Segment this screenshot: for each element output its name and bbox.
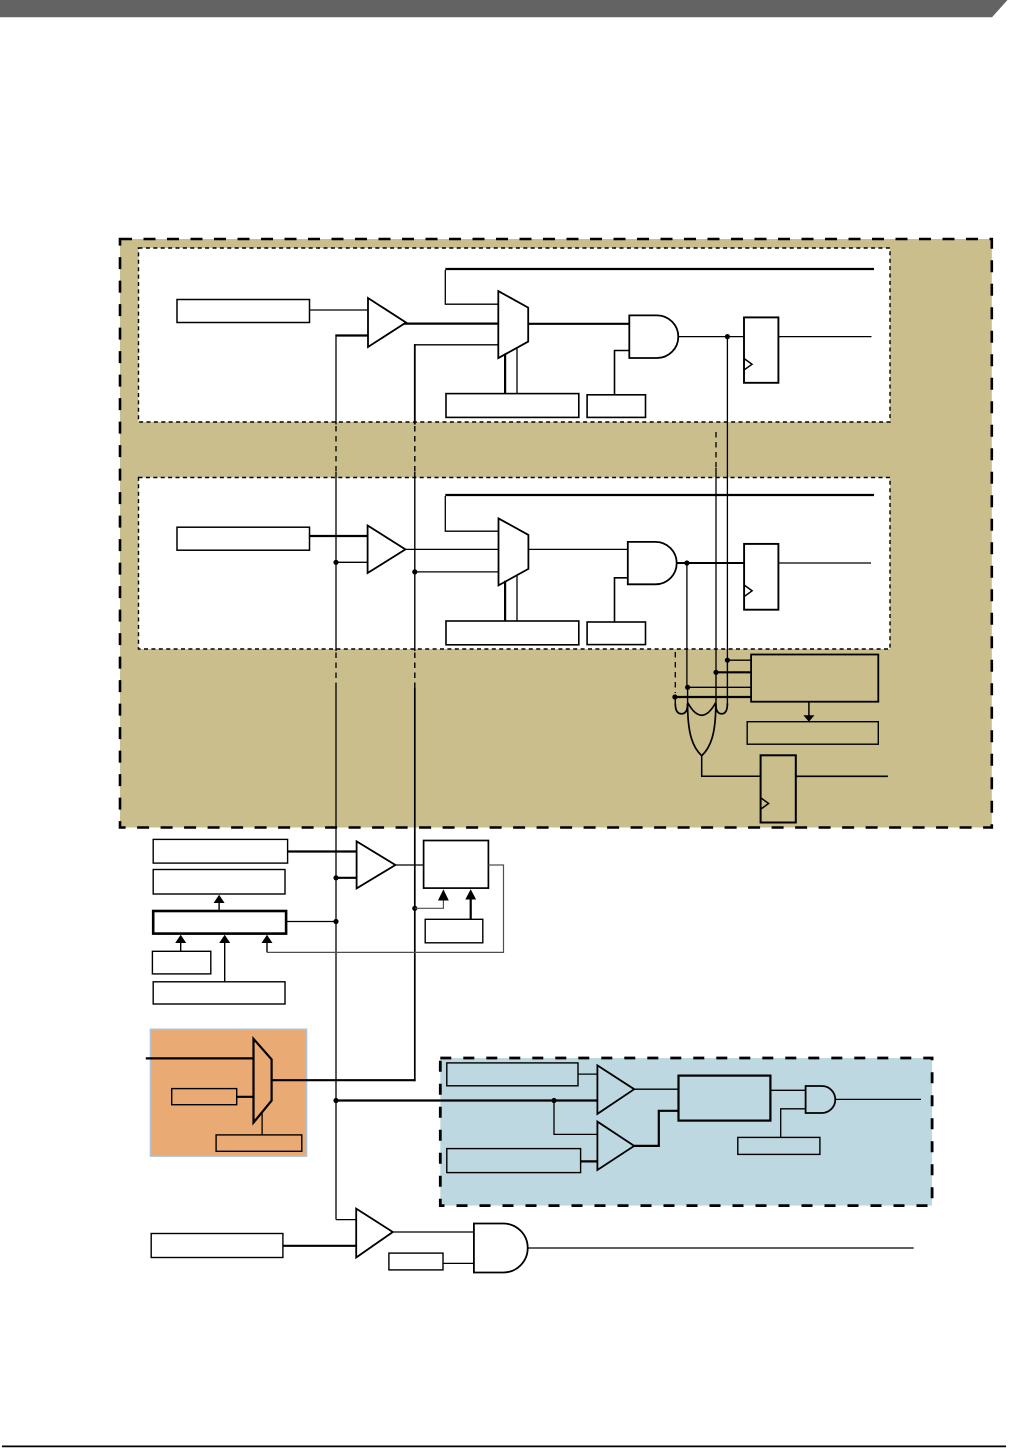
- wire OR input stub 4: [726, 660, 728, 705]
- AND gate B: [628, 542, 677, 584]
- wire comparator 1 output: [634, 1088, 678, 1090]
- wire bus riser 2 dashed below unit B: [414, 653, 416, 689]
- buffer amp B: [368, 526, 406, 574]
- arrow dead-time register to counter box: [808, 702, 810, 716]
- wire bus riser 2 lower solid run to mux output corner: [414, 688, 416, 1081]
- wire riser2 junction to mux B: [415, 571, 499, 573]
- wire riser1 elbow into buffer D: [336, 1219, 356, 1221]
- node AND B output junction: [684, 560, 689, 565]
- wire clock mux select stub: [261, 1113, 263, 1135]
- wire bus riser 1 top horizontal into buffer A: [335, 334, 368, 336]
- waveform generator B box: [446, 621, 579, 645]
- arrow input 3 into status register: [266, 943, 268, 953]
- wire branch to comparator 2: [554, 1101, 597, 1135]
- comparator 1: [597, 1065, 634, 1114]
- wire clock select to buffer C: [288, 850, 357, 852]
- control register B small box: [587, 622, 645, 645]
- node riser1 junction to edge detector: [333, 1098, 338, 1103]
- node branch junction in blue block: [551, 1098, 556, 1103]
- wire riser1 junction to buffer B: [336, 561, 368, 563]
- wire bus riser 2 solid through unit B: [414, 472, 416, 651]
- AND gate C: [806, 1086, 836, 1113]
- clock select register box: [153, 839, 287, 863]
- wire bus riser 1 (vertical, unit A to bottom): [335, 335, 337, 425]
- clock select bits box: [216, 1135, 302, 1151]
- node riser2 junction in unit B: [412, 569, 417, 574]
- wire riser 2 horizontal into mux A: [415, 344, 499, 346]
- edge detector block (blue dashed box): [440, 1058, 932, 1206]
- wire buffer A output to mux A: [404, 323, 499, 325]
- wire junction B drop to OR input: [686, 563, 688, 687]
- register capture box: [447, 1063, 578, 1086]
- bottom value box: [447, 1149, 581, 1173]
- wire bus riser 1 dashed segment between units: [335, 426, 337, 472]
- wire buffer C output to control block: [395, 864, 423, 866]
- wire AND A output: [678, 336, 744, 338]
- wire bus riser 1 dashed segment below unit B: [335, 653, 337, 689]
- flip-flop A: [744, 317, 778, 382]
- wire control logic feedback loop: [267, 865, 504, 952]
- wire riser1 junction into blue block: [336, 1099, 597, 1101]
- wire clock mux output to riser2: [272, 1079, 416, 1081]
- wire tap 4 horizontal thick: [675, 696, 751, 698]
- node tap 4 to dead-time register: [672, 694, 677, 699]
- wire mask bit to AND D: [443, 1262, 474, 1264]
- wire OR input stub 3: [715, 672, 717, 710]
- wire enable bits to AND C: [781, 1109, 806, 1138]
- wire mux A select thin vertical: [516, 348, 518, 394]
- waveform generator A box: [446, 394, 579, 418]
- wire fourth descender dashed start: [674, 652, 676, 693]
- node tap 1 to dead-time register: [725, 658, 730, 663]
- wire flip-flop A output: [778, 336, 871, 338]
- arrow prescaler to control logic: [470, 899, 472, 919]
- flip-flop B clock mark: [744, 585, 752, 597]
- flip-flop A clock mark: [744, 359, 752, 371]
- wire OCR1A to buffer A: [310, 309, 369, 311]
- wire logic box to AND C: [770, 1089, 805, 1091]
- footer rule: [2, 1445, 1006, 1447]
- wire control B to AND B: [615, 578, 628, 622]
- arrow input 2 into status register: [224, 943, 226, 982]
- wire riser1 junction into blue block overlay: [440, 1099, 597, 1101]
- OR gate body: [688, 704, 716, 756]
- wire feedback B vertical drop: [445, 496, 498, 531]
- wire mux B select thin vertical: [516, 575, 518, 621]
- wire third descender solid run: [715, 468, 717, 672]
- node riser1 junction in unit B: [333, 560, 338, 565]
- wire bus riser 2 dashed between units: [414, 426, 416, 472]
- synchronizer box: [172, 1089, 237, 1105]
- wire tap 2 horizontal thick: [716, 671, 751, 673]
- AND gate A: [629, 315, 678, 358]
- node riser2 junction at control logic: [412, 906, 417, 911]
- wire bottom value box to comparator 2: [581, 1160, 598, 1162]
- node AND A output junction: [725, 334, 730, 339]
- wire junction A drop to OR input: [726, 337, 728, 661]
- wire riser2 junction arrow into control logic: [415, 900, 444, 908]
- wire bus riser 1 solid through unit B: [335, 472, 337, 651]
- wire feedback A top horizontal: [445, 268, 874, 270]
- wire tap 3 horizontal: [687, 686, 751, 688]
- buffer amp A: [368, 298, 406, 347]
- clock mux: [254, 1039, 272, 1123]
- interrupt mask box: [153, 982, 285, 1004]
- wire OR output to flip-flop C: [702, 756, 761, 777]
- wire interrupt register to buffer D: [283, 1245, 356, 1247]
- wire bus riser 2 vertical in unit A: [414, 344, 416, 425]
- wire flip-flop B output: [778, 562, 871, 564]
- mux B: [499, 518, 529, 585]
- buffer amp C: [357, 841, 396, 888]
- wire riser1 junction to buffer C: [336, 877, 357, 879]
- arrow status to mode register: [218, 903, 220, 912]
- wire mux B output to AND B: [528, 548, 627, 550]
- mux A: [498, 291, 528, 358]
- clock source select block (orange box): [151, 1029, 307, 1156]
- node tap 3 to dead-time register: [685, 685, 690, 690]
- wire tap 1 horizontal: [727, 659, 751, 661]
- control logic box: [424, 841, 489, 889]
- mask bit box: [389, 1253, 443, 1270]
- wire mux A output to AND A: [528, 323, 629, 325]
- OR gate cup left: [675, 704, 687, 714]
- node riser1 junction at buffer C: [333, 875, 338, 880]
- wire status register to riser1: [286, 921, 336, 923]
- wire mux A select thick vertical: [504, 354, 506, 394]
- wire comparator 2 output up to logic box: [633, 1111, 679, 1146]
- mode register box: [153, 870, 285, 895]
- dead-time counter box: [747, 722, 878, 745]
- status register box (thick): [153, 911, 286, 934]
- interrupt register box: [151, 1234, 283, 1258]
- dead-time register box: [751, 655, 878, 702]
- wire OR input stub 1: [674, 697, 676, 706]
- wire flip-flop C output: [796, 775, 888, 777]
- OR gate input arc: [688, 703, 716, 716]
- wire control A to AND A: [615, 351, 630, 395]
- flip-flop C clock mark: [761, 798, 769, 810]
- node riser1 junction at status register: [333, 919, 338, 924]
- enable bits box: [738, 1137, 820, 1154]
- compare unit A inner box: [139, 248, 891, 422]
- header bar: [0, 0, 1008, 17]
- buffer amp D: [356, 1209, 393, 1258]
- AND gate D: [474, 1224, 528, 1273]
- control register A small box: [587, 395, 645, 418]
- flip-flop B: [744, 544, 778, 610]
- wire feedback A vertical drop: [445, 270, 498, 304]
- arrow input 1 into status register: [180, 943, 182, 952]
- wire synchronizer to clock mux: [237, 1096, 254, 1098]
- node tap 2 to dead-time register: [713, 670, 718, 675]
- dead-time generator outer block (khaki dashed box): [120, 239, 992, 828]
- comparator 2: [597, 1122, 634, 1170]
- compare unit B inner box: [139, 478, 891, 650]
- noise canceler logic box: [679, 1076, 771, 1121]
- wire buffer D output to AND D: [393, 1231, 474, 1233]
- wire OR input stub 2: [687, 687, 689, 710]
- wire OCR1B to buffer B: [310, 535, 368, 537]
- register OCR1A box: [177, 300, 310, 323]
- wire AND D long output: [528, 1247, 914, 1249]
- prescaler box: [425, 919, 483, 943]
- wire third descender dashed start: [715, 432, 717, 468]
- OR gate cup right: [716, 704, 728, 714]
- register OCR1B box: [177, 527, 310, 550]
- flip-flop C: [761, 755, 796, 822]
- small flag box: [152, 951, 210, 974]
- wire capture box to comparator 1: [578, 1073, 597, 1075]
- wire external clock input: [146, 1057, 254, 1059]
- wire feedback B top horizontal: [445, 494, 874, 496]
- wire mux B select thick vertical: [504, 581, 506, 621]
- wire buffer B output to mux B: [404, 548, 499, 550]
- wire AND C output: [835, 1098, 921, 1100]
- wire bus riser 1 lower solid run: [335, 688, 337, 1220]
- wire AND B output to flip-flop B: [677, 562, 744, 564]
